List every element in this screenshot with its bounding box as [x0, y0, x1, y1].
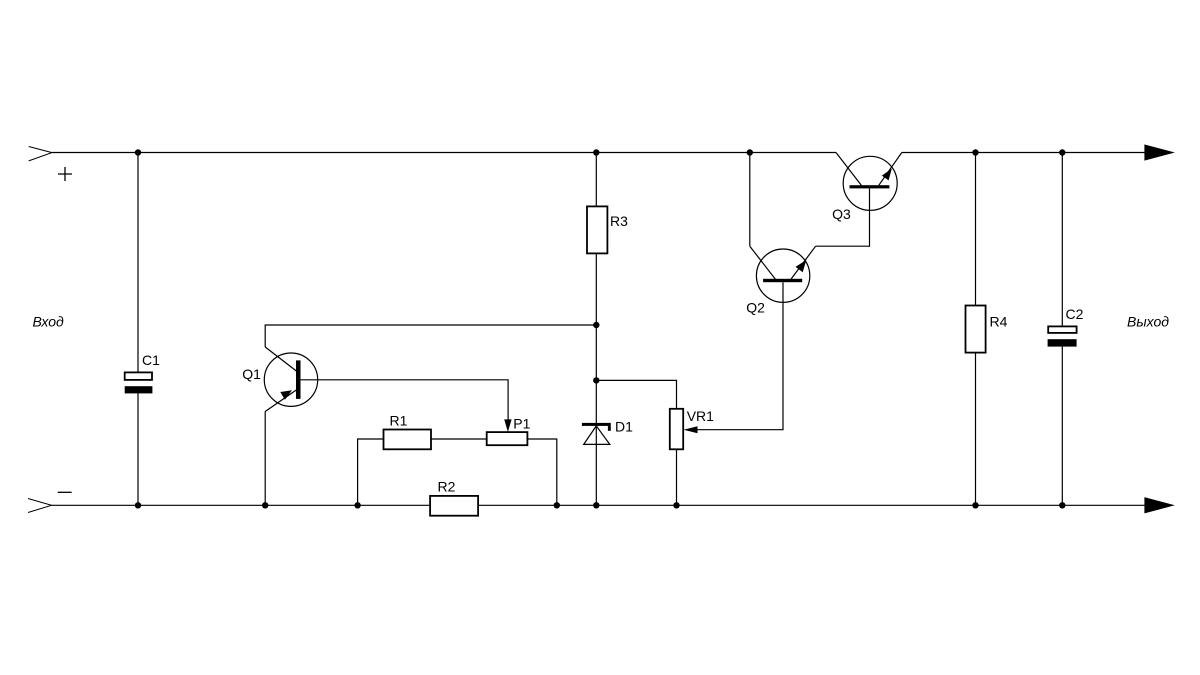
wire Q2 emitter to Q3 base — [816, 188, 870, 246]
junction node VR1 top — [593, 377, 599, 383]
junction Q2 collector — [747, 149, 753, 155]
minus polarity mark — [58, 491, 72, 493]
junction D1 bottom — [593, 502, 599, 508]
input terminal arrow + — [29, 147, 52, 161]
junction P1 bottom — [554, 502, 560, 508]
capacitor C1 — [125, 372, 153, 393]
junction R4 bottom — [972, 502, 978, 508]
wire C1 bottom lead — [137, 393, 139, 505]
wire C2 bottom lead — [1061, 347, 1063, 506]
wire R3 top lead — [595, 153, 597, 207]
junction node Q1 collector — [593, 322, 599, 328]
svg-text:VR1: VR1 — [687, 408, 714, 424]
capacitor C2 — [1048, 326, 1077, 346]
output terminal arrow - — [1145, 498, 1173, 513]
wire VR1 bottom lead — [676, 449, 678, 505]
wire R1 left lead — [358, 439, 384, 505]
input terminal arrow - — [28, 499, 52, 513]
svg-text:Q3: Q3 — [832, 206, 851, 222]
junction R3 top — [593, 149, 599, 155]
wire R3 bottom to bottom rail — [595, 253, 597, 505]
junction C1 top — [135, 149, 141, 155]
wire Q1 emitter to bottom rail — [264, 412, 266, 506]
zener diode D1 — [582, 423, 611, 445]
resistor R1 — [384, 430, 432, 450]
wire R1 to P1 — [431, 438, 487, 440]
svg-text:R3: R3 — [610, 213, 628, 229]
svg-text:D1: D1 — [615, 419, 633, 435]
rheostat VR1 — [670, 409, 698, 450]
output terminal arrow + — [1145, 145, 1173, 160]
junction C2 bottom — [1059, 502, 1065, 508]
wire R4 bottom lead — [975, 353, 977, 506]
svg-text:P1: P1 — [513, 415, 530, 431]
junction VR1 bottom — [673, 502, 679, 508]
wire bottom rail left — [52, 504, 431, 506]
resistor R3 — [587, 206, 607, 253]
wire P1 right lead — [527, 439, 556, 505]
wire C2 top lead — [1061, 153, 1063, 327]
junction R1 bottom — [354, 502, 360, 508]
svg-text:C2: C2 — [1066, 306, 1084, 322]
wire top rail left — [52, 152, 836, 154]
junction C2 top — [1059, 149, 1065, 155]
svg-text:Q2: Q2 — [746, 300, 765, 316]
wire Q1 collector to node — [265, 325, 596, 347]
svg-text:Вход: Вход — [33, 313, 65, 329]
svg-text:Q1: Q1 — [242, 366, 261, 382]
plus polarity mark — [58, 167, 72, 181]
resistor R4 — [966, 306, 986, 353]
wire Q2 collector to top rail — [749, 153, 751, 247]
wire C1 top lead — [137, 153, 139, 373]
svg-text:C1: C1 — [142, 352, 160, 368]
svg-text:R2: R2 — [438, 479, 456, 495]
svg-text:R4: R4 — [990, 314, 1008, 330]
wire R4 top lead — [975, 153, 977, 306]
svg-text:Выход: Выход — [1127, 314, 1169, 330]
wire bottom rail right — [478, 504, 1145, 506]
junction C1 bottom — [135, 502, 141, 508]
transistor Q1 — [264, 347, 317, 412]
wire top rail right — [902, 152, 1145, 154]
transistor Q2 — [750, 246, 816, 302]
wire VR1 wiper to Q2 base — [690, 282, 783, 430]
resistor R2 — [430, 496, 478, 516]
junction R4 top — [972, 149, 978, 155]
wire Q1 base to P1 wiper — [301, 380, 509, 420]
junction Q1 emitter bottom — [262, 502, 268, 508]
potentiometer P1 — [487, 419, 528, 445]
transistor Q3 — [836, 153, 902, 211]
svg-text:R1: R1 — [390, 413, 408, 429]
wire node to VR1 top — [596, 380, 676, 408]
